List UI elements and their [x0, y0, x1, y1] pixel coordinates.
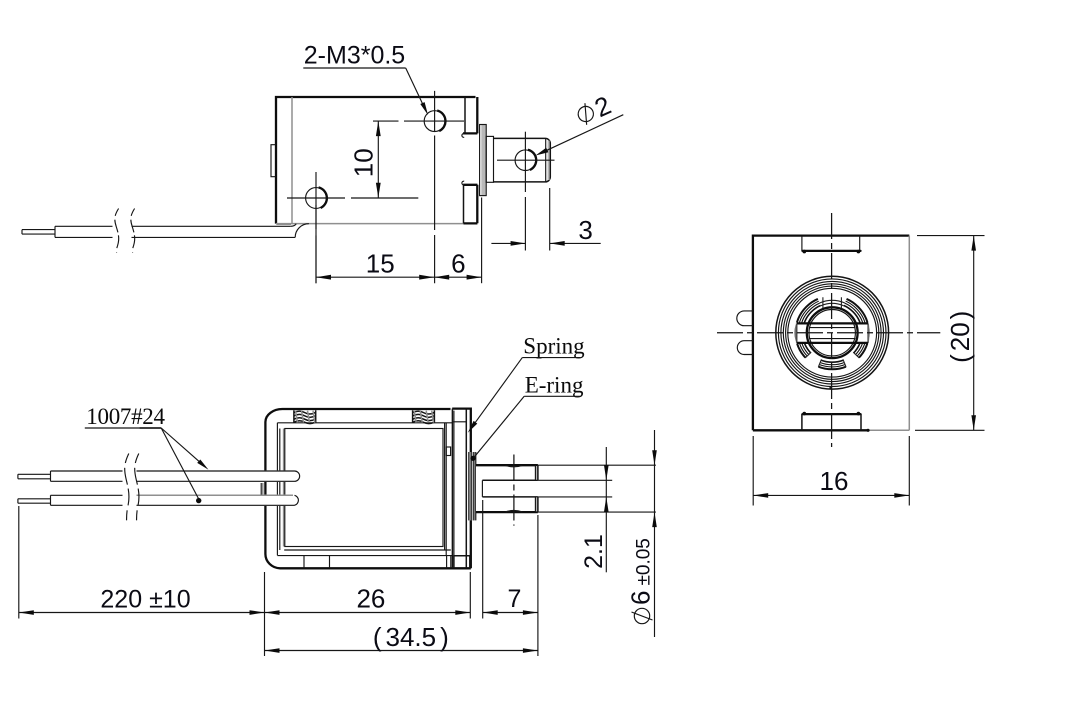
dimension 220 ±10 — [19, 506, 265, 619]
shaft fork slot — [482, 480, 538, 497]
top gap edges — [823, 297, 842, 308]
bridging arcs across top gap — [821, 303, 844, 305]
front view wire break blank + wires — [18, 470, 300, 506]
front view E-ring / spring stack — [469, 452, 476, 520]
front view small latch tab on right column — [446, 447, 450, 456]
end view fork slot lines — [797, 323, 868, 343]
end view bottom tab — [802, 412, 861, 430]
top view right upper notch block — [462, 97, 478, 137]
front view frame outline — [265, 409, 470, 569]
dimension 7 — [483, 500, 538, 656]
end view spring spiral — [776, 276, 889, 389]
top view mounting hole lower (M3) — [287, 172, 418, 283]
top view right lower notch block — [462, 181, 478, 223]
svg-text:6: 6 — [451, 249, 465, 279]
top view lead wire strip — [22, 224, 309, 238]
svg-text:10: 10 — [349, 148, 379, 177]
end view terminal pins — [737, 311, 754, 355]
front view coil bobbin — [284, 423, 451, 556]
svg-text:16: 16 — [820, 466, 849, 496]
label Spring — [468, 333, 585, 432]
label Ø2 with leader — [536, 90, 624, 156]
top view plunger hole (Ø2) — [497, 132, 555, 251]
label 1007#24 — [85, 404, 209, 503]
top view body outline — [276, 97, 476, 224]
front view plunger shaft — [476, 455, 656, 526]
dimension 26 — [265, 572, 471, 656]
front view wire break marks — [125, 454, 139, 525]
bottom wedge edges — [805, 352, 859, 367]
white cutout: top gap — [817, 295, 847, 308]
svg-text:15: 15 — [366, 249, 395, 279]
upper lead wire — [51, 470, 295, 472]
dimension Ø6 ±0.05 (vertical, rotated) — [626, 430, 657, 637]
label E-ring — [474, 372, 584, 457]
svg-text:2.1: 2.1 — [580, 534, 608, 569]
svg-text:7: 7 — [508, 585, 522, 613]
svg-text:(20): (20) — [945, 311, 975, 363]
dimension (20) — [915, 236, 985, 431]
white cutout: bottom-right wedge — [843, 352, 860, 368]
top view collar — [486, 136, 493, 182]
svg-text:1007#24: 1007#24 — [86, 404, 165, 429]
shaft end face — [536, 466, 538, 511]
top view wire break marks — [115, 209, 135, 253]
dimension 10 (vertical) — [349, 121, 381, 198]
end view body square — [753, 236, 909, 432]
dimension 15 — [316, 205, 434, 283]
frame slot edge between wires — [260, 483, 262, 495]
front view right plate lines — [447, 409, 470, 569]
svg-text:Spring: Spring — [523, 333, 585, 358]
dimension 2.1 (vertical, rotated) — [580, 447, 609, 572]
svg-text:E-ring: E-ring — [525, 372, 584, 397]
white cutout: slot band — [796, 323, 870, 344]
end view top tab — [802, 236, 861, 254]
svg-text:2-M3*0.5: 2-M3*0.5 — [304, 42, 405, 70]
lower lead wire — [51, 494, 123, 496]
front view frame inner lines — [277, 423, 452, 569]
dimension (34.5) — [265, 622, 538, 653]
front view top springs (coil hatch) — [294, 410, 435, 423]
top view plunger — [494, 138, 551, 182]
end view plunger face — [807, 307, 858, 358]
top view mounting hole upper (M3) — [373, 91, 464, 283]
dimension 16 — [753, 436, 909, 506]
top view left small tab — [271, 145, 276, 177]
top view flange plate — [480, 125, 487, 196]
svg-text:220 ±10: 220 ±10 — [100, 586, 190, 614]
end view centerlines — [717, 213, 940, 447]
end view E-ring band (full rings, then white cutouts) — [796, 295, 870, 370]
dimension 3 — [491, 188, 600, 251]
svg-text:3: 3 — [578, 215, 592, 245]
shaft hole centerline cross — [513, 455, 515, 526]
dimension 6 — [434, 198, 481, 284]
svg-text:26: 26 — [356, 584, 385, 614]
white cutout: bottom-left wedge — [804, 352, 821, 368]
label 2-M3*0.5 — [303, 42, 428, 115]
